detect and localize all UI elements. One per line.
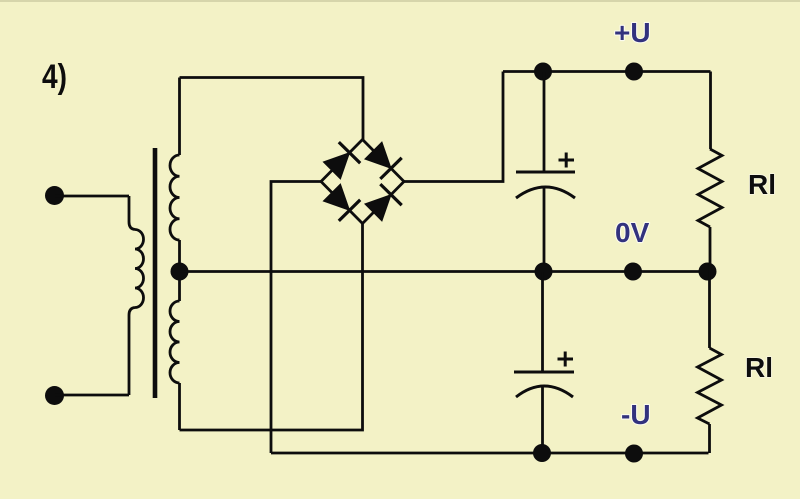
- wire secondary top vertical: [178, 78, 181, 156]
- wire C2 top lead: [541, 272, 544, 373]
- svg-text:Rl: Rl: [748, 169, 776, 200]
- wire secondary bottom vertical: [178, 383, 181, 430]
- node bottom rail at label: [625, 445, 643, 463]
- wire bottom input stub: [55, 394, 130, 397]
- wire secondary top to bridge: [180, 78, 364, 140]
- wire primary top vertical: [129, 196, 135, 230]
- node +U rail at C1: [534, 63, 552, 81]
- wire R2 top lead: [708, 272, 711, 349]
- resistor R2 zigzag: [698, 348, 722, 424]
- capacitor C1 positive plate: [516, 171, 575, 174]
- wire +U rail: [503, 70, 711, 73]
- wire R1 top lead: [709, 72, 712, 150]
- diode D1 upper-left (minus to AC top): [323, 142, 360, 179]
- capacitor C2 curved plate: [516, 386, 573, 397]
- node 0V at C1: [535, 263, 553, 281]
- node +U rail at label: [625, 63, 643, 81]
- diode D2 lower-left (minus to AC bottom): [323, 184, 360, 221]
- transformer T1 primary winding: [135, 230, 144, 308]
- wire secondary bottom to bridge: [180, 224, 363, 431]
- transformer T1 secondary upper winding: [170, 155, 180, 240]
- wire R1 bottom lead: [709, 227, 712, 272]
- wire top input stub: [55, 195, 130, 198]
- wire primary bottom vertical: [129, 308, 135, 396]
- wire bridge minus output down: [271, 182, 321, 454]
- capacitor C1 polarity plus: [559, 153, 575, 168]
- terminal dot top-left input: [45, 186, 64, 205]
- wire C1 top lead: [543, 72, 546, 173]
- diode D3 upper-right (AC top to plus): [365, 142, 402, 179]
- terminal dot bottom-left input: [45, 386, 64, 405]
- svg-text:4): 4): [42, 58, 67, 96]
- wire 0V rail: [180, 270, 711, 273]
- diode D4 lower-right (AC bottom to plus): [365, 184, 402, 221]
- wire secondary center section: [178, 240, 181, 301]
- capacitor C1 curved plate: [516, 187, 575, 198]
- transformer T1 core bar: [153, 148, 158, 398]
- svg-text:Rl: Rl: [745, 352, 773, 383]
- svg-text:+U: +U: [614, 17, 651, 48]
- capacitor C2 positive plate: [514, 371, 574, 374]
- capacitor C2 polarity plus: [558, 352, 574, 367]
- node bottom rail at C2: [533, 444, 551, 462]
- wire C1 bottom lead: [543, 188, 546, 271]
- wire -U bottom rail: [271, 452, 709, 455]
- resistor R1 zigzag: [698, 149, 722, 227]
- node center tap junction: [171, 263, 189, 281]
- node 0V at label: [624, 263, 642, 281]
- svg-text:0V: 0V: [615, 217, 650, 248]
- wire C2 bottom lead: [541, 387, 544, 453]
- bridge rectifier diamond arms: [321, 140, 404, 224]
- svg-text:-U: -U: [621, 399, 651, 430]
- wire bridge plus output to +U rail: [404, 72, 503, 182]
- wire R2 bottom lead: [708, 424, 711, 453]
- transformer T1 secondary lower winding: [170, 301, 180, 383]
- node 0V at resistor divider: [699, 263, 717, 281]
